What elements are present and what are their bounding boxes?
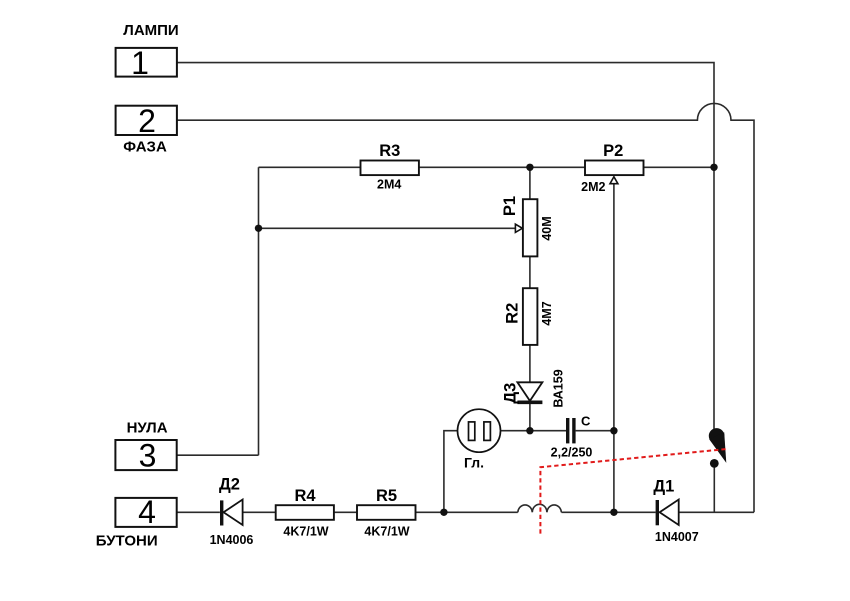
svg-text:1N4007: 1N4007 (655, 530, 699, 544)
svg-text:БУТОНИ: БУТОНИ (96, 533, 158, 550)
svg-text:ВА159: ВА159 (551, 369, 565, 407)
svg-text:P2: P2 (603, 142, 623, 160)
svg-text:ФАЗА: ФАЗА (123, 138, 167, 155)
svg-text:P1: P1 (501, 196, 519, 216)
svg-text:4: 4 (138, 494, 156, 530)
svg-text:2М4: 2М4 (377, 177, 401, 191)
svg-text:R5: R5 (376, 487, 397, 505)
svg-text:R2: R2 (504, 303, 522, 324)
svg-text:ЛАМПИ: ЛАМПИ (123, 22, 178, 39)
svg-text:40М: 40М (540, 216, 554, 240)
svg-text:1N4006: 1N4006 (210, 533, 254, 547)
svg-text:3: 3 (139, 438, 157, 474)
svg-text:4K7/1W: 4K7/1W (364, 525, 409, 539)
svg-text:R4: R4 (294, 487, 316, 505)
svg-text:R3: R3 (379, 142, 400, 160)
svg-text:Гл.: Гл. (464, 454, 484, 470)
svg-text:4K7/1W: 4K7/1W (283, 525, 328, 539)
svg-text:Д2: Д2 (219, 476, 240, 494)
svg-text:2М2: 2М2 (581, 180, 605, 194)
svg-text:1: 1 (131, 45, 149, 81)
svg-text:Д1: Д1 (653, 478, 674, 496)
svg-text:НУЛА: НУЛА (127, 419, 168, 436)
svg-text:Д3: Д3 (501, 383, 519, 404)
svg-text:4М7: 4М7 (540, 301, 554, 325)
svg-text:C: C (581, 413, 591, 428)
svg-text:2: 2 (138, 103, 156, 139)
svg-text:2,2/250: 2,2/250 (551, 445, 593, 459)
